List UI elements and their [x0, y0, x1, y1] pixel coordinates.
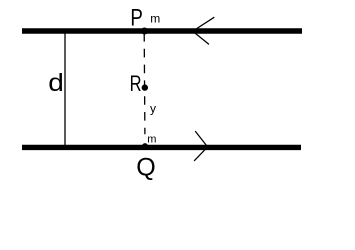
- node R: [142, 84, 148, 90]
- wire top conductor: [22, 28, 302, 33]
- node Q: [142, 143, 148, 149]
- arrow current direction bottom (rightward): [194, 131, 207, 161]
- wire dashed line P to Q: [143, 33, 146, 134]
- svg-text:P: P: [130, 4, 142, 31]
- node P: [141, 28, 148, 35]
- arrow current direction top (leftward): [194, 17, 215, 44]
- wire bottom conductor: [22, 145, 301, 150]
- svg-text:R: R: [130, 72, 142, 97]
- svg-text:Q: Q: [136, 153, 155, 181]
- svg-text:y: y: [150, 102, 156, 116]
- svg-text:d: d: [48, 69, 64, 97]
- svg-text:m: m: [150, 11, 160, 25]
- svg-text:m: m: [147, 133, 156, 145]
- wire separation line d: [64, 31, 66, 147]
